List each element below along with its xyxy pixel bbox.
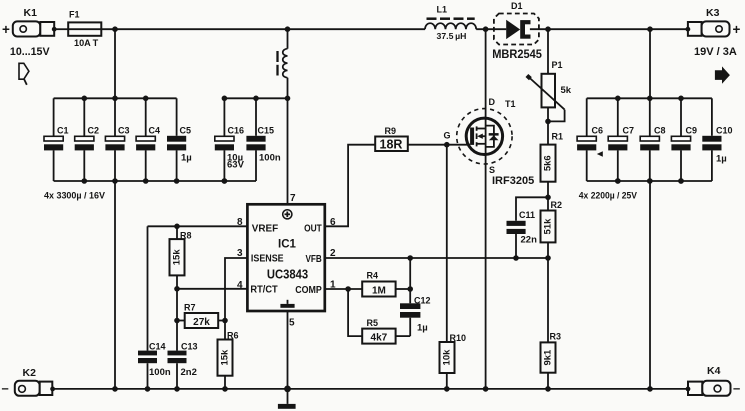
- transistor T1 IRF3205: [457, 97, 535, 187]
- svg-text:S: S: [489, 165, 495, 175]
- svg-text:R3: R3: [550, 332, 562, 342]
- svg-text:D1: D1: [511, 1, 523, 11]
- junction VFB/R2/R3: [545, 255, 551, 261]
- svg-text:10A T: 10A T: [74, 38, 98, 49]
- connector K3: [686, 7, 741, 37]
- small polarity arrow: [597, 151, 603, 157]
- svg-text:C11: C11: [519, 210, 535, 220]
- resistor R5: [348, 289, 410, 344]
- diode D1 (MBR2545): [492, 1, 542, 61]
- svg-text:1µ: 1µ: [417, 323, 428, 334]
- wire input vertical to cap bank: [114, 29, 116, 98]
- svg-text:4x 3300µ / 16V: 4x 3300µ / 16V: [44, 191, 106, 202]
- right cap bank bottom rail: [587, 180, 712, 182]
- wire top rail L1 to D1: [476, 28, 506, 30]
- svg-text:R2: R2: [551, 200, 563, 210]
- svg-text:–: –: [2, 381, 9, 396]
- svg-text:4x 2200µ / 25V: 4x 2200µ / 25V: [579, 191, 638, 202]
- junction bottom rail source: [483, 386, 489, 392]
- junction bottom rail pin5/ground: [284, 386, 291, 393]
- svg-text:K3: K3: [706, 7, 720, 19]
- svg-text:51k: 51k: [543, 218, 554, 235]
- capacitor C13: [168, 341, 198, 389]
- svg-text:C9: C9: [686, 126, 698, 136]
- svg-text:15k: 15k: [220, 349, 231, 366]
- svg-text:C15: C15: [258, 126, 275, 136]
- svg-text:R7: R7: [184, 303, 196, 313]
- svg-text:K4: K4: [707, 365, 721, 377]
- wire left ground vertical: [114, 181, 116, 389]
- svg-text:R8: R8: [180, 231, 192, 241]
- junction C11 bottom: [513, 255, 519, 261]
- junction C7 top: [615, 96, 621, 102]
- svg-text:R4: R4: [367, 270, 379, 280]
- IC1 UC3843: [247, 204, 324, 311]
- bottom ground rail: [53, 388, 688, 390]
- coupled choke winding (vertical): [278, 29, 288, 98]
- junction C2 bottom: [82, 178, 88, 184]
- svg-text:C6: C6: [592, 126, 604, 136]
- junction top rail x=650: [647, 26, 653, 32]
- svg-text:100n: 100n: [259, 153, 281, 164]
- svg-text:C1: C1: [57, 126, 69, 136]
- junction R7 right / R6: [222, 318, 228, 324]
- wire R10 to rail: [446, 373, 448, 389]
- junction C15 top: [253, 96, 259, 102]
- svg-text:5k: 5k: [561, 85, 572, 96]
- junction C16 top: [222, 96, 228, 102]
- svg-text:IRF3205: IRF3205: [492, 175, 534, 187]
- svg-text:+: +: [733, 22, 741, 37]
- junction bottom rail R3: [545, 386, 551, 392]
- svg-text:+: +: [2, 22, 10, 37]
- junction R8/pin4: [174, 286, 180, 292]
- svg-text:C13: C13: [181, 341, 198, 351]
- svg-text:C10: C10: [716, 126, 733, 136]
- resistor R10: [440, 333, 467, 373]
- svg-text:G: G: [444, 131, 451, 141]
- resistor R7: [177, 303, 225, 329]
- capacitor C5: [167, 98, 192, 181]
- junction C3 bottom: [112, 178, 118, 184]
- svg-text:C16: C16: [228, 126, 245, 136]
- svg-text:COMP: COMP: [295, 284, 322, 296]
- svg-text:19V / 3A: 19V / 3A: [694, 46, 737, 58]
- svg-text:C4: C4: [149, 126, 161, 136]
- junction R1/R2/C11: [545, 195, 551, 201]
- svg-text:R5: R5: [367, 318, 379, 328]
- junction COMP node: [345, 286, 351, 292]
- right cap bank vertical from rail: [649, 29, 651, 98]
- right ground vertical: [649, 181, 651, 389]
- svg-text:C8: C8: [654, 126, 666, 136]
- junction top rail x=287.5: [285, 26, 291, 32]
- svg-text:5: 5: [289, 318, 295, 329]
- svg-text:15k: 15k: [172, 249, 183, 266]
- svg-text:C14: C14: [149, 341, 166, 351]
- junction top rail x=115: [112, 26, 118, 32]
- svg-text:VREF: VREF: [252, 223, 279, 235]
- capacitor C2: [75, 98, 99, 181]
- svg-text:1M: 1M: [372, 285, 386, 296]
- junction C16 bottom: [222, 178, 228, 184]
- svg-text:C7: C7: [623, 126, 635, 136]
- wire R9 to gate: [408, 144, 470, 146]
- svg-text:37.5 µH: 37.5 µH: [437, 31, 467, 41]
- node G: [444, 142, 450, 148]
- wire C16/C15 top rail: [224, 97, 287, 99]
- resistor R4: [362, 270, 410, 296]
- svg-text:1µ: 1µ: [716, 154, 727, 165]
- svg-text:D: D: [489, 97, 496, 107]
- svg-text:UC3843: UC3843: [267, 267, 308, 281]
- svg-text:R9: R9: [385, 126, 397, 136]
- svg-text:L1: L1: [437, 4, 448, 14]
- junction P1 wiper: [545, 119, 551, 125]
- ground symbol: [278, 389, 296, 409]
- svg-text:C2: C2: [88, 126, 100, 136]
- capacitor C14: [138, 226, 171, 389]
- junction top rail x=485.6 (drain): [483, 26, 489, 32]
- resistor R1: [541, 121, 564, 197]
- connector K2: [2, 367, 55, 396]
- capacitor C8: [640, 98, 665, 181]
- wire top rail D1 to K3: [530, 28, 688, 30]
- svg-text:C12: C12: [414, 295, 431, 305]
- capacitor C11: [507, 197, 549, 258]
- right cap bank top rail: [587, 97, 712, 99]
- wire G to R10: [446, 145, 448, 342]
- capacitor C7: [608, 98, 634, 181]
- wire VFB node to C12: [409, 258, 411, 303]
- junction choke bottom: [285, 96, 291, 102]
- svg-text:P1: P1: [552, 60, 563, 70]
- junction bottom rail x=115: [112, 386, 118, 392]
- svg-text:27k: 27k: [193, 317, 210, 328]
- wire COMP pin1: [325, 288, 362, 290]
- capacitor C1: [44, 98, 69, 181]
- svg-text:2n2: 2n2: [181, 367, 197, 378]
- wire VREF pin8: [148, 225, 248, 227]
- junction R7 left: [174, 318, 180, 324]
- junction bottom rail C13: [174, 386, 180, 392]
- svg-text:5k6: 5k6: [543, 155, 554, 171]
- svg-text:10k: 10k: [442, 349, 453, 366]
- junction bottom rail x=650: [647, 386, 653, 392]
- junction bottom rail C14: [145, 386, 151, 392]
- junction C8 bottom: [647, 178, 653, 184]
- svg-text:4k7: 4k7: [371, 333, 388, 344]
- svg-text:9k1: 9k1: [543, 349, 554, 366]
- svg-text:K2: K2: [23, 367, 37, 379]
- svg-text:K1: K1: [24, 7, 38, 19]
- junction bottom rail R10: [444, 386, 450, 392]
- wire pin5 to ground rail: [287, 311, 289, 389]
- junction top rail x=548 (P1): [545, 26, 551, 32]
- svg-text:RT/CT: RT/CT: [250, 284, 278, 296]
- wire pin4 node down to R7: [176, 289, 178, 351]
- capacitor C3: [105, 98, 129, 181]
- resistor R8: [170, 226, 192, 288]
- inductor L1: [425, 4, 476, 41]
- junction bottom rail R6: [222, 386, 228, 392]
- wire drain vertical: [485, 29, 487, 118]
- wire K1 to F1: [54, 28, 68, 30]
- junction cap bank top x=115: [112, 96, 118, 102]
- svg-text:F1: F1: [69, 10, 80, 20]
- wire OUT to R9: [325, 145, 375, 227]
- svg-text:–: –: [733, 381, 740, 396]
- svg-text:C3: C3: [118, 126, 130, 136]
- svg-text:6: 6: [330, 217, 336, 228]
- input arrow: [19, 63, 29, 85]
- junction VFB/C12 branch: [407, 255, 413, 261]
- svg-text:18R: 18R: [380, 137, 403, 151]
- connector K4: [686, 365, 741, 396]
- junction C8 top: [647, 96, 653, 102]
- wire source vertical: [485, 155, 487, 389]
- junction C5 bottom: [174, 178, 180, 184]
- svg-text:T1: T1: [505, 99, 516, 109]
- junction C9 top: [678, 96, 684, 102]
- svg-text:7: 7: [290, 193, 296, 204]
- wire top rail F1 to L1: [101, 28, 425, 30]
- svg-text:C5: C5: [180, 126, 192, 136]
- resistor R6: [218, 321, 239, 389]
- svg-text:VFB: VFB: [306, 253, 323, 265]
- junction C7 bottom: [615, 178, 621, 184]
- wire VFB pin2: [325, 257, 548, 259]
- svg-text:10...15V: 10...15V: [10, 46, 50, 58]
- svg-text:R6: R6: [227, 331, 239, 341]
- wire ISENSE pin3: [225, 258, 247, 321]
- potentiometer P1: [527, 29, 572, 121]
- wire choke to IC pin7: [287, 98, 289, 204]
- svg-text:100n: 100n: [149, 367, 171, 378]
- junction C4 bottom: [143, 178, 149, 184]
- junction C9 bottom: [678, 178, 684, 184]
- svg-text:MBR2545: MBR2545: [492, 49, 542, 61]
- junction cap bank top x=145.7: [143, 96, 149, 102]
- capacitor C10: [702, 98, 732, 181]
- capacitor C6: [577, 98, 603, 181]
- svg-text:1µ: 1µ: [181, 153, 192, 164]
- wire RT/CT pin4: [177, 288, 247, 290]
- svg-text:22n: 22n: [521, 234, 538, 245]
- wire left cap bank bottom rail: [54, 180, 256, 182]
- resistor R3: [541, 332, 562, 389]
- output arrow: [715, 66, 730, 83]
- resistor R9: [375, 126, 408, 151]
- resistor R2: [541, 197, 563, 258]
- capacitor C4: [136, 98, 160, 181]
- fuse F1: [68, 10, 101, 50]
- capacitor C9: [671, 98, 697, 181]
- capacitor C15: [246, 98, 280, 181]
- svg-text:63V: 63V: [227, 160, 245, 171]
- svg-text:ISENSE: ISENSE: [251, 253, 284, 265]
- junction cap bank top x=84.3: [82, 96, 88, 102]
- junction R4 right: [407, 286, 413, 292]
- svg-text:OUT: OUT: [304, 223, 322, 235]
- svg-text:R1: R1: [552, 132, 564, 142]
- wire R2 to R3: [547, 258, 549, 342]
- svg-text:IC1: IC1: [278, 239, 297, 251]
- svg-text:R10: R10: [450, 333, 467, 343]
- capacitor C12: [400, 295, 431, 336]
- wire left cap bank top rail: [54, 97, 177, 99]
- connector K1: [2, 7, 57, 37]
- junction VREF/R8: [174, 224, 180, 230]
- capacitor C16: [215, 98, 245, 181]
